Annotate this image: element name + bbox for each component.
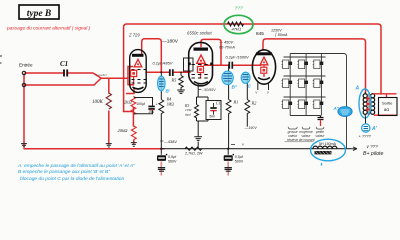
wire: tube1 grid entry loop (128, 67, 134, 85)
title box "type B" (19, 5, 59, 19)
capacitor cell r3c1 (282, 100, 293, 109)
capacitor cell r1c1 (282, 60, 293, 69)
svg-text:845: 845 (256, 31, 264, 36)
svg-text:0,5μf: 0,5μf (235, 155, 244, 159)
svg-text:100μf: 100μf (136, 102, 145, 106)
wire: bottom ground rail (black) (161, 148, 351, 150)
wire: top rail right of 47k to right drop (253, 24, 381, 94)
svg-text:passage du courrant alternatif: passage du courrant alternatif ( signal … (6, 25, 91, 31)
svg-text:type B: type B (27, 9, 52, 19)
svg-text:500V: 500V (235, 160, 244, 164)
capacitor 100uF/25V cathode bypass (134, 98, 158, 115)
annotation: blue ellipse around primary (359, 89, 371, 118)
wire: grid top bus to right drop (290, 54, 346, 149)
svg-text:0,1μf /485V: 0,1μf /485V (153, 61, 173, 66)
wire: grid column bus 1 (289, 54, 291, 116)
arrowhead B+ pilote (351, 147, 357, 151)
svg-text:⎪ 80mA: ⎪ 80mA (274, 32, 288, 37)
wire: cavalier jumper (93, 73, 101, 78)
capacitor 0,5uF/560V left (157, 148, 177, 176)
svg-text:1250V: 1250V (271, 29, 282, 33)
wire: grid bottom bus (290, 115, 320, 117)
svg-text:A: empeche le passage de l'alt: A: empeche le passage de l'alternatif au… (17, 163, 136, 169)
resistor 2k (red, tube1 cathode) (131, 97, 136, 115)
resistor 2,7k 2W on rail (184, 147, 203, 155)
wire: 100K to ground (108, 111, 110, 144)
wire: 0,2uF cap to tube3 grid (234, 64, 261, 66)
svg-text:2kΩ: 2kΩ (124, 100, 132, 105)
svg-text:+ ????: + ???? (359, 134, 372, 139)
wire: input ground drop (23, 74, 25, 146)
svg-text:+: + (156, 103, 158, 107)
svg-text:???: ??? (235, 6, 243, 12)
core (368, 94, 369, 116)
svg-text:R5: R5 (171, 78, 178, 83)
svg-text:R1: R1 (233, 100, 239, 105)
annotation: blue oval B'' over R1 lead (222, 71, 238, 90)
svg-text:R2: R2 (251, 101, 258, 106)
svg-text:60-70mA: 60-70mA (219, 45, 235, 50)
capacitor C1 input (60, 60, 68, 77)
wire: tube1 to tube2 coupling (146, 71, 190, 73)
notes (blue) (17, 163, 136, 182)
capacitor cell r1c2 (297, 60, 308, 69)
wire: grid column bus 2 (305, 54, 307, 116)
wire: primary top/bottom stubs (364, 92, 366, 117)
svg-text:A': A' (371, 126, 378, 132)
svg-text:5H 150mA: 5H 150mA (319, 142, 337, 146)
svg-text:blocage du point C par la diod: blocage du point C par la diode de l'ali… (20, 176, 125, 182)
svg-text:Sortie: Sortie (382, 101, 393, 106)
capacitor 0,5uF/500V right (224, 148, 244, 176)
svg-text:50V: 50V (210, 115, 217, 119)
svg-text:R4: R4 (166, 97, 173, 102)
wire: input lower (25, 78, 128, 85)
output transformer T1 (363, 92, 375, 117)
wire: grid column bus 3 (320, 54, 322, 116)
resistor R5 grid leak (171, 72, 184, 90)
svg-text:v ???: v ??? (367, 144, 379, 149)
svg-text:C1: C1 (216, 101, 221, 106)
wire: tube3 plate rail to transformer primary (263, 39, 366, 93)
braces under columns (288, 127, 324, 129)
wire: input top (through C1) (25, 72, 93, 74)
capacitor cell r2c3 (313, 79, 324, 88)
wire: bottom ground rail (red part) (24, 148, 164, 150)
svg-text:560V: 560V (168, 160, 177, 164)
capacitor cell r3c3 (313, 100, 324, 109)
svg-text:8Ω: 8Ω (384, 107, 389, 112)
secondary winding (371, 94, 375, 98)
svg-text:A'': A'' (333, 106, 340, 111)
speaker box Sortie 8ohm (379, 98, 398, 116)
wire: secondary to Sortie (373, 94, 397, 115)
edge artifact marks (0, 56, 2, 63)
annotation: blue circle A' with marks (362, 124, 378, 132)
wire: R3/C1 to ground (194, 120, 208, 149)
capacitor small (petite) below grid (318, 116, 324, 127)
capacitor cell r2c1 (282, 79, 293, 88)
resistor R2 cathode 845 (245, 75, 257, 127)
svg-text:1MΩ: 1MΩ (167, 103, 175, 107)
svg-text:ν: ν (267, 91, 269, 95)
svg-text:ν: ν (256, 91, 258, 95)
svg-text:Cavalier: Cavalier (96, 73, 108, 77)
wire: tube1 cathode hook (124, 89, 134, 112)
svg-text:20kΩ: 20kΩ (118, 128, 129, 133)
wire: 100K branch top (108, 78, 110, 93)
wire: 2k/20k junction (132, 108, 134, 127)
wire: 20k to ground (133, 140, 135, 144)
annotation: green ellipse (224, 15, 253, 33)
capacitor cell r2c2 (297, 79, 308, 88)
red coupling arrows (366, 97, 371, 112)
annotation: blue ellipse around choke (311, 139, 346, 161)
resistor 20k (red) (131, 126, 136, 140)
svg-text:égal: égal (185, 112, 191, 116)
annotation: blue drop below choke (321, 163, 323, 166)
capacitor 0,2uF/1600V coupling (226, 55, 250, 69)
wire: B+ top rail with left drop (124, 24, 254, 112)
wire: primary bottom down to A' (365, 117, 367, 125)
labels grosse/moyenne/petite valeur (288, 130, 326, 138)
svg-text:Entrée: Entrée (19, 63, 33, 68)
svg-text:2,7kΩ, 2W: 2,7kΩ, 2W (184, 152, 203, 156)
choke 5H 150mA on rail (313, 142, 337, 155)
svg-text:C1: C1 (60, 60, 68, 68)
svg-text:0,2μF /1600V: 0,2μF /1600V (226, 55, 250, 60)
svg-text:47kΩ: 47kΩ (232, 27, 242, 32)
svg-text:- 50/55V: - 50/55V (202, 88, 216, 92)
ground below R5 (177, 90, 185, 93)
svg-text:réserve de courant: réserve de courant (287, 138, 316, 142)
resistor R4 1M (159, 71, 174, 150)
triode/pentode V1 (Z 729) (130, 50, 147, 93)
svg-text:B'': B'' (232, 85, 238, 90)
ground below 20k on rail (131, 143, 137, 147)
annotation: blue filled oval A'' (diode note) (333, 106, 353, 117)
svg-text:6550c socket: 6550c socket (187, 31, 213, 36)
svg-text:Z 729: Z 729 (128, 33, 140, 38)
svg-text:A: A (355, 86, 360, 92)
wire: tube3 filament legs (258, 83, 269, 91)
svg-text:100K: 100K (92, 100, 104, 105)
power pentode V2 (6550c) (188, 42, 213, 85)
wire: grid row line 1 (284, 56, 326, 58)
svg-text:B+ pilote: B+ pilote (363, 151, 383, 157)
power triode V3 (845) (252, 50, 275, 84)
wire: grid row line 3 (284, 96, 326, 98)
svg-text:0,5μf: 0,5μf (168, 155, 177, 159)
resistor 100K (red) (106, 93, 111, 109)
wire: black box above R5 (184, 58, 194, 71)
primary winding (363, 94, 367, 98)
node: Entree terminals (19, 63, 33, 87)
svg-text:—180V: —180V (162, 39, 179, 45)
capacitor C1 (cathode, boxed) (206, 97, 221, 120)
svg-text:valeur: valeur (316, 134, 326, 138)
resistor R3 10W (tube2 cathode) (184, 84, 208, 121)
capacitor 0,1uF/485V coupling (153, 61, 173, 77)
svg-text:25V: 25V (149, 110, 156, 114)
capacitor cell r1c3 (313, 60, 324, 69)
capacitor cell r3c2 (297, 100, 308, 109)
wire: grid row line 2 (284, 75, 326, 77)
resistor 47k in green ellipse on B+ rail (228, 22, 244, 32)
annotation: blue oval C over R2 lead (241, 72, 251, 88)
svg-text:—190V: —190V (244, 126, 258, 130)
PSU capacitor bank 3x3 grid (284, 54, 347, 149)
svg-text:—438V: —438V (164, 139, 177, 144)
wire: tube2 plate hook down to 0,2uF (201, 39, 228, 65)
svg-text:B empeche le passange aux poin: B empeche le passange aux point 'B' et B… (18, 169, 111, 175)
annotation: blue oval B' over R4 lead (158, 76, 171, 94)
ground at input on rail (21, 144, 27, 147)
wire: tube1 plate hook down to coupling wire (142, 39, 162, 72)
resistor R1 grid leak 845 (226, 64, 238, 148)
ground below 100K on rail (106, 144, 112, 147)
